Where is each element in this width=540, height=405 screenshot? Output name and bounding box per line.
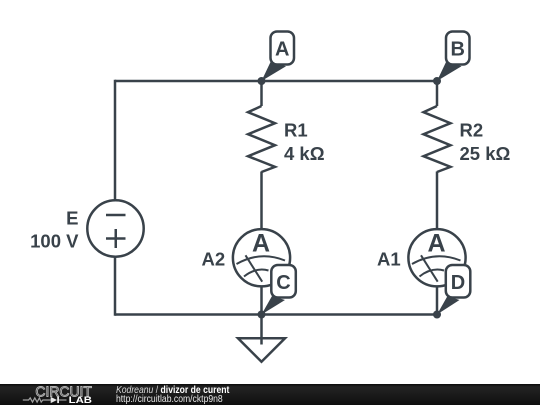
resistor R2 — [424, 106, 451, 172]
wire left rail lower — [114, 258, 117, 316]
wire bottom rail — [115, 313, 437, 316]
junction node B — [433, 77, 441, 85]
node label A — [262, 32, 295, 82]
svg-text:A: A — [252, 230, 270, 258]
CircuitLab logo — [0, 384, 100, 405]
resistor R1 — [248, 106, 275, 172]
svg-text:B: B — [450, 38, 464, 60]
wire ammeter A2 to node C — [260, 287, 263, 315]
svg-text:R2: R2 — [460, 120, 484, 141]
wire node A to R1 — [260, 81, 263, 106]
wire top rail — [115, 80, 437, 83]
svg-text:C: C — [276, 272, 290, 294]
svg-text:LAB: LAB — [69, 395, 93, 405]
node label D — [437, 265, 470, 315]
svg-text:A2: A2 — [202, 249, 226, 270]
wire node B to R2 — [436, 81, 439, 106]
wire left rail upper — [114, 80, 117, 200]
ammeter A2 — [233, 229, 290, 286]
junction node C — [258, 311, 266, 319]
node label C — [262, 265, 296, 315]
svg-text:4 kΩ: 4 kΩ — [284, 143, 325, 164]
svg-text:D: D — [451, 272, 465, 294]
wire R2 to ammeter A1 — [436, 172, 439, 229]
svg-text:R1: R1 — [284, 120, 308, 141]
svg-text:A1: A1 — [377, 249, 401, 270]
footer credit text — [116, 386, 229, 405]
footer bar — [0, 384, 540, 405]
wire ammeter A1 to node D — [436, 287, 439, 315]
node label B — [437, 32, 470, 82]
svg-text:A: A — [427, 230, 445, 258]
svg-text:E: E — [66, 208, 78, 229]
junction node A — [258, 77, 266, 85]
ground — [238, 315, 285, 362]
svg-text:25 kΩ: 25 kΩ — [460, 143, 511, 164]
svg-text:100 V: 100 V — [30, 231, 79, 252]
wire R1 to ammeter A2 — [260, 172, 263, 229]
ammeter A1 — [408, 229, 465, 286]
voltage source E — [87, 200, 143, 256]
svg-text:A: A — [275, 38, 289, 60]
junction node D — [433, 311, 441, 319]
